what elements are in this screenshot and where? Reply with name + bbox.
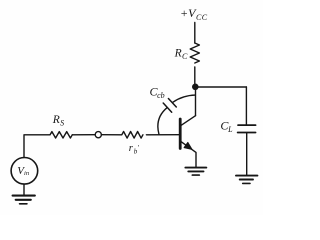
wire CL to ground	[246, 133, 248, 175]
wire Vin top	[24, 135, 50, 158]
svg-text:rb′: rb′	[129, 143, 140, 156]
svg-text:Vin: Vin	[17, 165, 29, 177]
resistor RS	[50, 132, 72, 138]
resistor RC	[190, 43, 199, 63]
svg-text:Ccb: Ccb	[150, 84, 165, 99]
source Vin circle	[11, 158, 38, 185]
svg-text:RC: RC	[174, 47, 188, 61]
wire collector vertical	[195, 87, 197, 116]
wire collector node to CL branch	[195, 86, 246, 88]
wire rb' to base	[146, 134, 179, 136]
wire arc Ccb lower	[158, 108, 167, 134]
junction dot collector	[192, 84, 199, 91]
transistor Q1	[180, 116, 196, 167]
ground Vin	[13, 196, 35, 204]
wire down to CL	[245, 87, 247, 124]
wire Vcc stub	[194, 23, 196, 44]
ground CL	[236, 176, 257, 184]
resistor rb'	[122, 132, 143, 139]
capacitor CL	[238, 125, 256, 132]
capacitor Ccb	[163, 99, 176, 113]
svg-text:+VCC: +VCC	[180, 6, 208, 22]
wire Vin to ground	[23, 184, 25, 194]
ground emitter	[185, 168, 206, 176]
wire RC to collector node	[194, 67, 196, 87]
wire arc Ccb upper	[173, 95, 196, 102]
wire RS to node	[72, 134, 95, 136]
node terminal	[95, 132, 101, 138]
wire node to rb'	[101, 134, 121, 136]
svg-text:RS: RS	[52, 114, 64, 128]
svg-text:CL: CL	[220, 119, 233, 134]
